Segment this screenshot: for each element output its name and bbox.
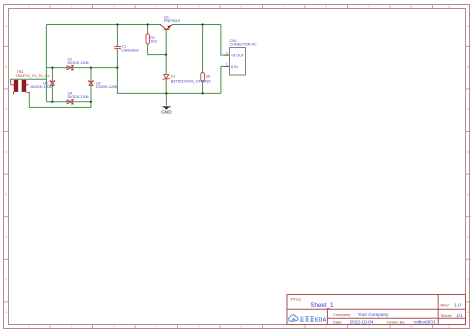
svg-text:F: F [467,235,469,239]
svg-text:U5: U5 [206,75,211,79]
svg-text:DIODE-1206: DIODE-1206 [96,85,117,89]
svg-text:E: E [5,192,7,196]
svg-text:2: 2 [226,51,228,55]
svg-text:B: B [467,65,469,69]
svg-text:DIODE-1206: DIODE-1206 [31,85,52,89]
svg-text:1: 1 [226,63,228,67]
svg-text:E: E [467,192,469,196]
svg-text:B: B [5,65,7,69]
svg-text:REV:: REV: [441,303,450,308]
svg-text:TITLE:: TITLE: [290,297,302,302]
svg-text:H: H [5,310,7,314]
svg-text:+8 OUT: +8 OUT [231,54,245,58]
svg-text:Calibration: Calibration [122,48,140,52]
svg-text:DIODE-1206: DIODE-1206 [68,61,89,65]
svg-text:F: F [5,235,7,239]
svg-text:1kΩ: 1kΩ [150,40,157,44]
svg-text:8 IN: 8 IN [231,65,238,69]
svg-text:DIODE-1206: DIODE-1206 [68,95,89,99]
svg-text:BZT52C0V4S_C442683: BZT52C0V4S_C442683 [171,79,211,83]
svg-text:Date:: Date: [333,320,343,325]
svg-text:Company:: Company: [333,312,351,317]
svg-text:mitko6831: mitko6831 [414,320,436,325]
svg-text:H: H [467,310,469,314]
svg-text:2022-10-04: 2022-10-04 [350,320,374,325]
svg-text:D1: D1 [171,75,176,79]
svg-text:A: A [467,24,469,28]
svg-text:D: D [5,150,8,154]
svg-text:Sheet_1: Sheet_1 [310,302,334,309]
svg-text:11: 11 [447,325,450,329]
svg-text:1/1: 1/1 [456,313,463,318]
svg-text:PNP3019: PNP3019 [164,19,180,23]
svg-text:G: G [5,278,8,282]
svg-text:1.0: 1.0 [454,303,461,308]
svg-text:Your Company: Your Company [358,312,389,317]
svg-text:11: 11 [447,5,450,9]
svg-text:10: 10 [410,5,414,9]
svg-text:C: C [5,107,8,111]
svg-text:EDA: EDA [315,318,327,324]
svg-text:GND: GND [161,110,172,116]
svg-text:Sheet:: Sheet: [441,313,453,318]
svg-text:TRAFO2_P1_S1_KL: TRAFO2_P1_S1_KL [15,74,49,78]
svg-text:Drawn By:: Drawn By: [387,320,405,325]
svg-text:CONECTOR AC: CONECTOR AC [230,43,257,47]
svg-text:10: 10 [410,325,414,329]
svg-text:A: A [5,24,7,28]
